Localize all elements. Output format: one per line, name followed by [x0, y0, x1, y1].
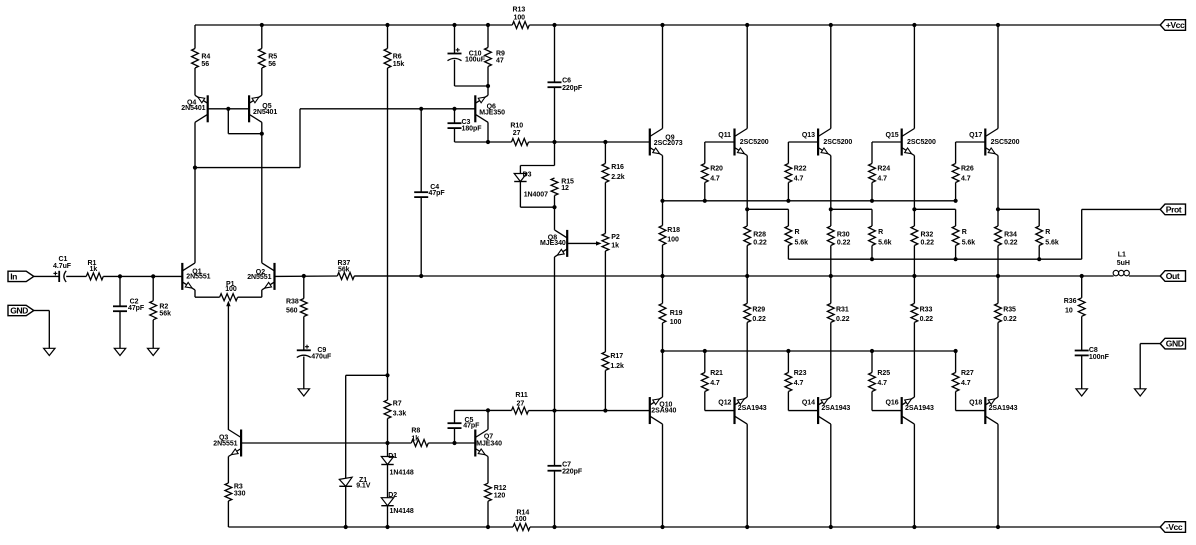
svg-text:120: 120: [494, 493, 506, 500]
svg-text:Q11: Q11: [718, 132, 731, 139]
node Q6 collector: [486, 140, 490, 144]
node C3 top: [452, 107, 456, 111]
node Q13 emitter line: [829, 207, 833, 211]
ground C2: [114, 348, 125, 355]
svg-text:R23: R23: [794, 370, 807, 377]
ground R2: [148, 348, 159, 355]
resistor R17: [602, 352, 624, 411]
wire Q17 emitter: [997, 156, 999, 210]
svg-text:R30: R30: [837, 231, 850, 238]
ground right: [1135, 389, 1146, 396]
svg-text:27: 27: [513, 130, 521, 137]
svg-text:R29: R29: [752, 307, 765, 314]
wire R1 to Q1 base: [103, 275, 182, 277]
node R36 output: [1080, 274, 1084, 278]
wire Q4-Q5 bases: [207, 108, 249, 110]
resistor R23 4.7: [785, 351, 807, 411]
resistor R27 4.7: [952, 351, 974, 411]
svg-text:Q7: Q7: [484, 433, 493, 440]
wire Q8 collector: [554, 207, 556, 230]
transistor Q12 2SA1943: [718, 397, 766, 424]
svg-text:220pF: 220pF: [562, 85, 583, 92]
node C5 bottom: [452, 441, 456, 445]
svg-text:3.3k: 3.3k: [393, 411, 407, 418]
svg-text:47: 47: [496, 57, 504, 64]
node Q16 collector rail: [912, 525, 916, 529]
svg-text:R: R: [795, 229, 800, 236]
svg-text:56k: 56k: [338, 266, 350, 273]
svg-text:0.22: 0.22: [752, 316, 766, 323]
resistor R 5.6k #2: [869, 209, 892, 259]
resistor R18: [659, 201, 680, 276]
svg-text:R18: R18: [667, 227, 680, 234]
wire Q10 emitter: [662, 351, 664, 397]
node Q15 collector rail: [912, 23, 916, 27]
svg-text:47pF: 47pF: [128, 305, 145, 312]
resistor R31 0.22: [827, 276, 849, 397]
node R2 junction: [151, 274, 155, 278]
node R24 drive rail: [870, 199, 874, 203]
svg-text:-Vcc: -Vcc: [1166, 522, 1183, 532]
svg-text:2N5551: 2N5551: [213, 440, 237, 447]
wire Q16 collector: [913, 424, 915, 527]
node R26 drive rail: [954, 199, 958, 203]
node feedback: [302, 274, 306, 278]
node R34 output: [996, 274, 1000, 278]
transistor Q13 2SC5200: [802, 129, 852, 156]
wire Q8 emitter: [554, 257, 556, 411]
resistor R7: [384, 375, 406, 443]
ground C9: [298, 389, 309, 396]
resistor R28 0.22: [744, 209, 767, 276]
wire emitter line Q17: [998, 208, 1039, 210]
svg-text:56k: 56k: [159, 311, 171, 318]
wire mirror out to VAS: [195, 109, 475, 168]
capacitor C1: [53, 256, 72, 282]
resistor R35 0.22: [995, 276, 1017, 397]
capacitor C9 470uF: [297, 345, 332, 389]
ground C8: [1076, 389, 1087, 396]
resistor R25 4.7: [869, 351, 891, 411]
capacitor C10 100uF: [448, 25, 489, 86]
svg-text:R8: R8: [411, 427, 420, 434]
node Q6 emitter: [486, 84, 490, 88]
svg-text:R33: R33: [920, 307, 933, 314]
node R6 rail: [385, 23, 389, 27]
potentiometer P1: [220, 281, 238, 301]
node 5.6k chain #2: [870, 257, 874, 261]
node C4 top: [419, 107, 423, 111]
node Q18 collector rail: [996, 525, 1000, 529]
svg-text:1k: 1k: [411, 436, 419, 443]
svg-text:100: 100: [515, 516, 527, 523]
wire base-collector tie: [228, 109, 261, 134]
svg-text:Out: Out: [1166, 271, 1180, 281]
resistor R38: [286, 276, 307, 350]
svg-text:4.7: 4.7: [710, 380, 720, 387]
svg-text:47pF: 47pF: [429, 190, 446, 197]
svg-text:R13: R13: [513, 7, 526, 14]
svg-text:R25: R25: [877, 370, 890, 377]
wire base Q12: [705, 410, 735, 412]
svg-text:5.6k: 5.6k: [878, 239, 892, 246]
node C10 rail: [452, 23, 456, 27]
node D3-R15-Q8: [552, 205, 556, 209]
wire R11 to Q10 base: [529, 410, 650, 412]
resistor R34 0.22: [995, 209, 1018, 276]
svg-text:L1: L1: [1118, 252, 1126, 259]
svg-text:Q15: Q15: [886, 132, 899, 139]
resistor R9: [485, 25, 505, 86]
node Z1 rail: [344, 525, 348, 529]
svg-text:R19: R19: [670, 310, 683, 317]
wire output line: [354, 275, 1160, 277]
svg-text:2N5401: 2N5401: [181, 105, 205, 112]
wire In to C1: [34, 275, 59, 277]
transistor Q1 2N5551: [182, 263, 210, 290]
capacitor C8 100nF: [1075, 347, 1110, 389]
wire spreader top: [554, 142, 556, 166]
transistor Q2 2N5551: [247, 263, 274, 290]
resistor R26 4.7: [952, 142, 974, 201]
wire base Q16: [872, 410, 902, 412]
wire base Q17: [956, 141, 986, 143]
node R21 drive rail: [703, 349, 707, 353]
diode D3 1N4007: [514, 166, 554, 208]
wire emitter line Q15: [914, 208, 955, 210]
node R5 rail: [260, 23, 264, 27]
node C6 rail: [552, 23, 556, 27]
resistor R29 0.22: [744, 276, 766, 397]
resistor R20 4.7: [701, 142, 723, 201]
node bias top: [385, 373, 389, 377]
wire Q2 base to feedback node: [275, 275, 338, 277]
svg-text:Q14: Q14: [802, 400, 815, 407]
diode D2 1N4148: [381, 492, 414, 527]
svg-text:27: 27: [517, 401, 525, 408]
svg-text:4.7: 4.7: [794, 380, 804, 387]
svg-text:2SA1943: 2SA1943: [821, 405, 850, 412]
wire base Q14: [788, 410, 818, 412]
svg-text:Q18: Q18: [969, 400, 982, 407]
node Q10 collector rail: [660, 525, 664, 529]
svg-text:R5: R5: [268, 54, 277, 61]
capacitor C7 220pF: [548, 411, 583, 527]
svg-text:Q16: Q16: [886, 400, 899, 407]
transistor Q15 2SC5200: [886, 129, 936, 156]
node Q7 collector: [486, 408, 490, 412]
resistor R15: [551, 178, 574, 207]
transistor Q3 2N5551: [213, 430, 241, 457]
wire Q5 collector to Q2: [261, 122, 263, 263]
svg-text:4.7: 4.7: [877, 380, 887, 387]
node 5.6k chain #3: [954, 257, 958, 261]
transistor Q9 2SC2073: [650, 129, 683, 156]
svg-text:1k: 1k: [90, 266, 98, 273]
capacitor C4 47pF: [414, 109, 445, 276]
capacitor C6 220pF: [548, 25, 583, 142]
node C7 rail: [552, 525, 556, 529]
svg-text:1N4007: 1N4007: [524, 192, 548, 199]
svg-text:56: 56: [201, 61, 209, 68]
wire Q17 collector: [997, 25, 999, 129]
wire emitter line Q11: [747, 208, 788, 210]
wire Q9 collector: [662, 25, 664, 129]
node Q1-Q4 collectors: [193, 166, 197, 170]
node Q12 collector rail: [745, 525, 749, 529]
wire Q6 emitter: [487, 86, 489, 95]
node R27 drive rail: [954, 349, 958, 353]
svg-text:100: 100: [670, 319, 682, 326]
svg-text:R21: R21: [710, 370, 723, 377]
ground input GND: [44, 348, 55, 355]
svg-text:R32: R32: [921, 231, 934, 238]
svg-text:R7: R7: [393, 400, 402, 407]
svg-text:100uF: 100uF: [465, 57, 486, 64]
wire drive rail top: [663, 200, 956, 202]
wire +Vcc rail: [195, 24, 1160, 26]
svg-text:2SA1943: 2SA1943: [738, 405, 767, 412]
resistor R 5.6k #3: [952, 209, 975, 259]
svg-text:R28: R28: [753, 231, 766, 238]
node C4 bottom: [419, 274, 423, 278]
node Q8 emitter at base line: [552, 408, 556, 412]
svg-text:R38: R38: [286, 299, 299, 306]
resistor R14: [513, 510, 530, 531]
wire Q12 collector: [746, 424, 748, 527]
svg-text:2N5551: 2N5551: [247, 274, 271, 281]
transistor Q17 2SC5200: [969, 129, 1019, 156]
svg-text:2SC5200: 2SC5200: [823, 139, 852, 146]
resistor R4: [192, 25, 211, 95]
svg-text:4.7: 4.7: [710, 176, 720, 183]
resistor R3: [225, 457, 246, 528]
wire base Q15: [872, 141, 902, 143]
capacitor C5 47pF: [448, 410, 489, 443]
svg-text:R10: R10: [510, 123, 523, 130]
svg-text:4.7: 4.7: [794, 176, 804, 183]
svg-text:0.22: 0.22: [920, 316, 934, 323]
svg-text:5.6k: 5.6k: [1045, 239, 1059, 246]
svg-text:5.6k: 5.6k: [795, 239, 809, 246]
node R17 bottom: [603, 408, 607, 412]
wire Q1 emitter: [195, 290, 220, 297]
wire to R10: [488, 141, 512, 143]
svg-text:R: R: [962, 229, 967, 236]
wire emitter line Q13: [831, 208, 872, 210]
svg-text:R22: R22: [794, 166, 807, 173]
wire right GND: [1140, 344, 1160, 389]
tag In: [8, 271, 34, 281]
wire Q1 collector: [194, 168, 196, 263]
svg-text:47pF: 47pF: [463, 422, 480, 429]
svg-text:2SC5200: 2SC5200: [991, 139, 1020, 146]
resistor R30 0.22: [827, 209, 850, 276]
svg-text:100nF: 100nF: [1089, 354, 1110, 361]
svg-text:D2: D2: [388, 492, 397, 499]
resistor R 5.6k #4: [1036, 209, 1059, 259]
svg-text:Q12: Q12: [718, 400, 731, 407]
wire Q8 base to P2 wiper: [567, 241, 601, 245]
node R25 drive rail: [870, 349, 874, 353]
transistor Q4 2N5401: [181, 95, 207, 122]
node 5.6k chain #4: [1037, 257, 1041, 261]
svg-text:In: In: [10, 272, 17, 282]
wire C1 to R1: [66, 275, 86, 277]
node R9 rail: [486, 23, 490, 27]
resistor R8: [388, 427, 429, 446]
resistor R12: [485, 457, 507, 528]
node R16 top: [603, 140, 607, 144]
wire prot line: [788, 209, 1160, 259]
resistor R32 0.22: [911, 209, 934, 276]
transistor Q16 2SA1943: [886, 397, 934, 424]
resistor R 5.6k #1: [785, 209, 808, 259]
svg-text:100: 100: [225, 286, 237, 293]
node Q13 collector rail: [829, 23, 833, 27]
svg-text:100: 100: [667, 237, 679, 244]
tag GND right: [1160, 338, 1185, 349]
svg-text:R: R: [878, 229, 883, 236]
svg-text:100: 100: [514, 15, 526, 22]
wire drive rail bottom: [663, 350, 956, 352]
node Q17 emitter line: [996, 207, 1000, 211]
svg-text:Q17: Q17: [969, 132, 982, 139]
svg-text:0.22: 0.22: [1003, 316, 1017, 323]
svg-text:MJE340: MJE340: [540, 240, 566, 247]
node Q10 emitter: [660, 349, 664, 353]
resistor R33 0.22: [911, 276, 933, 397]
tag GND input: [8, 305, 34, 315]
svg-text:R35: R35: [1003, 307, 1016, 314]
wire R37 to C4 node: [354, 275, 421, 277]
wire GND tag: [34, 311, 50, 349]
svg-text:2SC5200: 2SC5200: [740, 139, 769, 146]
svg-text:330: 330: [234, 491, 246, 498]
transistor Q8 MJE340: [540, 230, 567, 257]
svg-text:R34: R34: [1004, 231, 1017, 238]
svg-text:+Vcc: +Vcc: [1166, 20, 1185, 30]
node Q15 emitter line: [912, 207, 916, 211]
wire R10 to Q9 base: [529, 141, 650, 143]
svg-text:0.22: 0.22: [1004, 239, 1018, 246]
node R20 drive rail: [703, 199, 707, 203]
resistor R37: [337, 260, 354, 279]
resistor R16: [602, 142, 625, 234]
resistor R5: [258, 25, 277, 95]
svg-text:R20: R20: [710, 166, 723, 173]
svg-text:R4: R4: [201, 54, 210, 61]
node Q14 collector rail: [829, 525, 833, 529]
node Q9 emitter: [660, 199, 664, 203]
resistor R21 4.7: [701, 351, 723, 411]
tag +Vcc: [1160, 20, 1185, 31]
svg-text:56: 56: [268, 61, 276, 68]
svg-text:2SA940: 2SA940: [651, 408, 676, 415]
svg-text:R31: R31: [836, 307, 849, 314]
resistor R6: [384, 25, 404, 68]
node R12 rail: [486, 525, 490, 529]
wire Q4 collector: [194, 122, 196, 167]
wire Q13 collector: [830, 25, 832, 129]
svg-text:GND: GND: [10, 306, 28, 316]
wire Q18 collector: [997, 424, 999, 527]
node R22 drive rail: [786, 199, 790, 203]
node R30 output: [829, 274, 833, 278]
resistor R2: [150, 276, 171, 348]
wire base Q13: [788, 141, 818, 143]
resistor R24 4.7: [869, 142, 891, 201]
svg-text:2SC2073: 2SC2073: [654, 140, 683, 147]
wire P1 to Q2 emitter: [238, 290, 262, 297]
node R28 output: [745, 274, 749, 278]
svg-text:12: 12: [561, 185, 569, 192]
svg-text:0.22: 0.22: [753, 239, 767, 246]
svg-text:180pF: 180pF: [462, 126, 483, 133]
svg-text:470uF: 470uF: [311, 353, 332, 360]
wire P2 to R17: [604, 251, 606, 352]
resistor R10: [510, 123, 528, 146]
svg-text:R11: R11: [515, 392, 527, 399]
svg-text:Prot: Prot: [1166, 205, 1182, 215]
svg-text:2SA1943: 2SA1943: [989, 405, 1018, 412]
transistor Q5 2N5401: [249, 95, 277, 122]
wire R8 to Q7 base: [428, 442, 475, 444]
node Q17 collector rail: [996, 23, 1000, 27]
svg-text:2N5551: 2N5551: [186, 274, 210, 281]
svg-text:R24: R24: [877, 166, 890, 173]
svg-text:1k: 1k: [611, 243, 619, 250]
svg-text:R17: R17: [610, 353, 623, 360]
svg-text:2SC5200: 2SC5200: [907, 139, 936, 146]
wire Q14 collector: [830, 424, 832, 527]
zener Z1 9.1V: [339, 477, 370, 527]
svg-text:C6: C6: [562, 77, 571, 84]
potentiometer P2: [602, 234, 620, 252]
transistor Q18 2SA1943: [969, 397, 1017, 424]
svg-text:0.22: 0.22: [837, 239, 851, 246]
svg-text:R36: R36: [1064, 298, 1077, 305]
svg-text:15k: 15k: [393, 61, 405, 68]
wire Q11 emitter: [746, 156, 748, 210]
svg-text:4.7uF: 4.7uF: [53, 263, 72, 270]
svg-text:D3: D3: [523, 172, 532, 179]
svg-text:4.7: 4.7: [961, 176, 971, 183]
tag Out: [1160, 271, 1185, 282]
inductor L1: [1113, 252, 1130, 276]
svg-text:MJE340: MJE340: [476, 441, 502, 448]
svg-text:5uH: 5uH: [1117, 260, 1130, 267]
svg-text:2N5401: 2N5401: [253, 109, 277, 116]
wire P1 wiper to Q3 collector: [226, 301, 230, 430]
resistor R36: [1064, 276, 1085, 351]
svg-text:MJE350: MJE350: [479, 110, 505, 117]
svg-text:1.2k: 1.2k: [610, 363, 624, 370]
svg-text:D1: D1: [388, 453, 397, 460]
node D2 rail: [385, 525, 389, 529]
resistor R13: [512, 7, 529, 29]
node R32 output: [912, 274, 916, 278]
wire Q7 collector: [487, 410, 489, 429]
svg-text:560: 560: [286, 307, 298, 314]
svg-text:R12: R12: [494, 485, 507, 492]
svg-text:1N4148: 1N4148: [390, 508, 414, 515]
svg-text:P2: P2: [611, 234, 620, 241]
svg-text:4.7: 4.7: [961, 380, 971, 387]
wire zener branch: [346, 375, 388, 478]
transistor Q14 2SA1943: [802, 397, 850, 424]
resistor R19: [659, 276, 683, 351]
